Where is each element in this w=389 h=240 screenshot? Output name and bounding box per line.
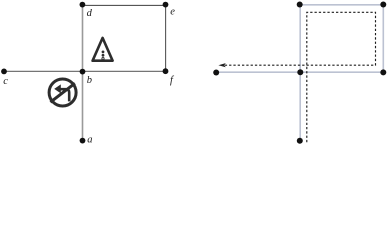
wire edge c-b-f horizontal xyxy=(4,70,166,72)
wire edge d-e top xyxy=(83,4,166,6)
arrowhead toward c' xyxy=(218,63,225,67)
node e xyxy=(163,2,169,8)
label d xyxy=(87,8,93,19)
node f' xyxy=(380,69,386,75)
node d xyxy=(80,2,86,8)
no-left-turn sign xyxy=(49,79,76,106)
wire edge d'-a' vertical (faded) xyxy=(299,5,301,141)
dashed walk path a'-d'-e'-f'-c' xyxy=(225,12,376,142)
wire edge e-f right xyxy=(165,5,167,71)
label a xyxy=(87,135,92,146)
svg-text:f: f xyxy=(170,75,175,86)
node a xyxy=(80,138,86,144)
label f xyxy=(170,75,175,86)
label e xyxy=(170,7,175,18)
node b' xyxy=(297,69,303,75)
node e' xyxy=(380,2,386,8)
warning sign triangle (traffic signals) xyxy=(93,38,113,61)
node c' xyxy=(213,70,219,76)
svg-text:a: a xyxy=(87,135,92,146)
wire edge c'-f' horizontal (faded) xyxy=(216,71,383,73)
label b xyxy=(87,75,92,86)
wire edge d'-e' top (faded) xyxy=(300,4,384,6)
svg-text:d: d xyxy=(87,8,93,19)
node f xyxy=(163,68,169,74)
svg-text:b: b xyxy=(87,75,92,86)
node b xyxy=(80,69,86,75)
node c xyxy=(1,69,7,75)
wire edge b-a vertical xyxy=(82,71,84,140)
label c xyxy=(3,76,8,87)
wire edge d-b vertical xyxy=(82,5,84,72)
node a' xyxy=(297,138,303,144)
svg-text:e: e xyxy=(170,7,175,18)
svg-text:c: c xyxy=(3,76,8,87)
node d' xyxy=(297,2,303,8)
wire edge e'-f' right (faded) xyxy=(382,5,384,73)
